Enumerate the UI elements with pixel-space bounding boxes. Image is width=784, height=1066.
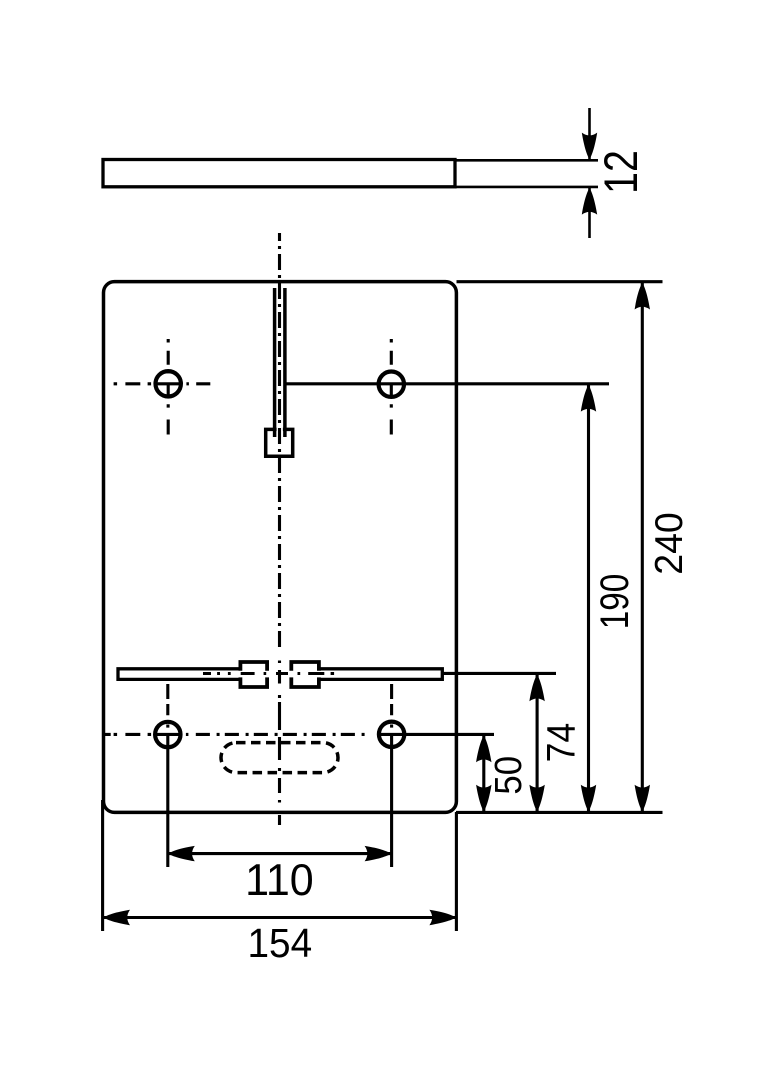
svg-text:240: 240 — [647, 512, 691, 575]
svg-text:110: 110 — [245, 855, 314, 905]
svg-text:154: 154 — [247, 921, 312, 966]
svg-text:50: 50 — [487, 756, 530, 795]
svg-text:74: 74 — [539, 723, 583, 763]
svg-text:12: 12 — [596, 150, 648, 194]
svg-text:190: 190 — [592, 574, 636, 630]
